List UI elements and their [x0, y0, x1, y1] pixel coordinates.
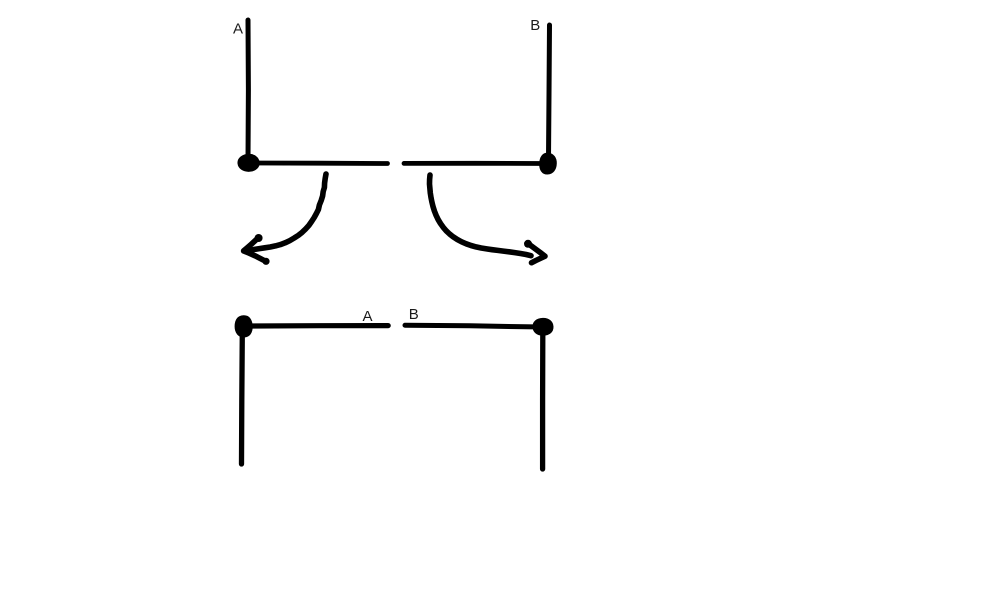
- wire: rod A vertical (top figure): [246, 20, 251, 161]
- svg-text:B: B: [530, 17, 540, 34]
- svg-text:A: A: [233, 21, 243, 38]
- node: pivot dot of rod A (top figure): [238, 154, 259, 171]
- wire: rod B vertical (bottom figure): [540, 333, 546, 469]
- wire: rod B vertical (top figure): [549, 25, 550, 158]
- wire: rod B horizontal (bottom figure): [405, 325, 535, 327]
- arrowhead blob: left lower barb end: [262, 258, 269, 265]
- node: pivot dot of rod B (bottom figure): [533, 318, 553, 335]
- node: pivot dot of rod A (bottom figure): [235, 316, 252, 337]
- arrow: left rotation (curved, points down-left): [250, 174, 327, 251]
- svg-text:B: B: [409, 306, 419, 323]
- arrowhead: left arrow barbs: [244, 237, 267, 261]
- arrowhead blob: left upper barb end: [255, 234, 263, 242]
- arrowhead blob: chevron upper end: [524, 240, 532, 248]
- arrowhead: right arrow chevron: [528, 243, 546, 263]
- arrow: right rotation (curved, points down-right): [430, 175, 532, 256]
- svg-text:A: A: [363, 308, 373, 325]
- wire: rod B horizontal (top figure): [404, 161, 543, 166]
- wire: rod A vertical (bottom figure): [239, 332, 245, 464]
- wire: rod A horizontal (top figure): [253, 161, 388, 166]
- node: pivot dot of rod B (top figure): [540, 153, 557, 174]
- wire: rod A horizontal (bottom figure): [250, 323, 388, 329]
